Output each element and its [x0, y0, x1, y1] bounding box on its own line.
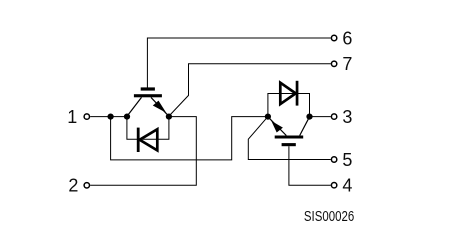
gate bar Q1	[141, 87, 155, 90]
diode D2 (right freewheeling diode)	[280, 81, 298, 106]
emitter lead Q1	[151, 97, 169, 116]
wire node1 to emitter node of Q2	[111, 117, 268, 160]
svg-text:4: 4	[342, 176, 352, 196]
body bar Q2	[275, 136, 304, 139]
terminal circle pin 2	[84, 183, 89, 188]
svg-text:1: 1	[67, 107, 77, 127]
svg-text:2: 2	[68, 176, 78, 196]
wire pin1 to collector node of Q1	[90, 116, 127, 118]
svg-text:6: 6	[342, 28, 352, 48]
transistor Q2 (right IGBT)	[268, 117, 310, 146]
emitter arrow Q1	[153, 101, 166, 113]
wire gate Q2 to pin4	[289, 146, 331, 185]
anode triangle D1	[140, 129, 158, 150]
gate bar Q2	[282, 143, 296, 146]
emitter lead Q2	[268, 117, 286, 136]
junction node B (collector Q1)	[124, 114, 130, 120]
wire collector Q2 to pin3	[310, 116, 331, 118]
junction node A (pin1 branch)	[108, 114, 114, 120]
cathode bar D1	[137, 128, 140, 152]
collector lead Q2	[300, 117, 310, 136]
junction node D (emitter Q2)	[265, 114, 271, 120]
terminal circle pin 3	[331, 114, 336, 119]
wire pin5 to emitter node of Q2	[248, 117, 330, 160]
wire diode D2 loop	[268, 94, 310, 117]
svg-text:SIS00026: SIS00026	[304, 209, 354, 225]
diode D1 (left freewheeling diode)	[137, 128, 158, 152]
terminal circle pin 6	[331, 35, 336, 40]
junction node E (collector Q2)	[306, 114, 312, 120]
junction node C (emitter Q1)	[166, 114, 172, 120]
emitter arrow Q2	[271, 121, 283, 133]
wire pin7 to emitter node of Q1	[169, 64, 331, 116]
wire pin6 to gate of Q1	[147, 38, 330, 88]
wire emitter Q1 to pin2	[90, 117, 196, 186]
svg-text:3: 3	[342, 107, 352, 127]
svg-text:5: 5	[342, 150, 352, 170]
cathode bar D2	[296, 81, 299, 106]
terminal circle pin 1	[84, 114, 89, 119]
body bar Q1	[134, 94, 162, 97]
terminal circle pin 7	[331, 61, 336, 66]
terminal circle pin 5	[331, 157, 336, 162]
collector lead Q1	[127, 97, 142, 116]
terminal circle pin 4	[331, 183, 336, 188]
wire diode D1 loop	[127, 117, 169, 140]
svg-text:7: 7	[342, 54, 352, 74]
transistor Q1 (left IGBT)	[127, 87, 169, 116]
anode triangle D2	[280, 83, 295, 104]
